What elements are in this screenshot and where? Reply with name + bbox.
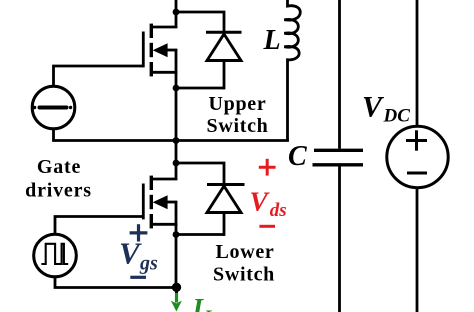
wire rail node B down to midpoint	[175, 88, 178, 164]
drain lead	[150, 26, 177, 29]
wire dot2 to lower diode cathode	[176, 163, 224, 186]
channel segment body	[150, 43, 153, 57]
label Vgs minus blue	[130, 276, 146, 279]
svg-text:V: V	[250, 186, 271, 217]
svg-text:I: I	[192, 293, 205, 312]
channel segment source	[150, 62, 153, 76]
voltage source VG2 lower gate driver pulse source	[34, 234, 77, 277]
triangle	[207, 34, 241, 61]
diode D2 lower body diode	[207, 185, 245, 236]
capacitor C	[313, 150, 364, 165]
wire VG2 plus to lower gate	[55, 217, 143, 235]
label Vds minus red	[259, 225, 275, 228]
source lead	[150, 71, 177, 74]
body arrow line	[166, 201, 177, 204]
node A top junction dot	[173, 9, 180, 16]
current arrow IL green	[171, 288, 182, 312]
wire node A to upper diode cathode	[176, 12, 224, 33]
wire top rail into drain of upper switch	[175, 0, 178, 28]
node dot2 lower drain junction	[173, 160, 180, 167]
wire mid node to inductor	[176, 139, 289, 142]
channel segment source	[150, 214, 153, 228]
svg-text:C: C	[288, 141, 307, 172]
transistor Q1 upper switch MOSFET	[143, 24, 177, 88]
svg-text:Switch: Switch	[207, 115, 269, 137]
svg-text:Switch: Switch	[213, 264, 275, 286]
wire capacitor top lead	[338, 0, 341, 149]
body arrow head	[153, 195, 168, 209]
svg-text:ds: ds	[270, 200, 287, 221]
svg-text:V: V	[362, 90, 385, 123]
voltage source VDC	[387, 126, 448, 187]
svg-text:L: L	[203, 307, 216, 312]
node mid junction dot	[173, 137, 180, 144]
node B upper source junction dot	[173, 85, 180, 92]
svg-text:Gate: Gate	[37, 156, 81, 178]
node D bottom junction dot	[172, 283, 181, 292]
source-drain vertical	[175, 202, 178, 235]
drain lead	[150, 178, 177, 181]
cathode bar	[206, 31, 242, 34]
cathode bar	[207, 183, 245, 186]
wire VG1 minus to mid node	[54, 129, 177, 141]
wire VG2 minus to bottom node	[55, 277, 176, 288]
channel segment drain	[150, 24, 153, 38]
voltage source VG1 upper gate driver	[32, 86, 75, 129]
svg-text:Upper: Upper	[209, 93, 267, 115]
anode lead	[223, 213, 226, 236]
wire VDC top lead	[416, 0, 419, 126]
wire rail node C down to bottom node	[175, 235, 178, 288]
svg-text:drivers: drivers	[25, 180, 92, 202]
wire rail dot2 down through lower switch	[175, 163, 178, 180]
label Vds plus red	[259, 159, 276, 176]
body arrow line	[166, 49, 177, 52]
svg-text:L: L	[263, 25, 281, 56]
gate plate	[142, 184, 145, 220]
inductor L	[284, 0, 300, 141]
source-drain vertical	[175, 50, 178, 88]
node C lower source junction dot	[173, 231, 180, 238]
svg-text:gs: gs	[139, 253, 158, 275]
triangle	[207, 186, 241, 213]
svg-text:DC: DC	[383, 106, 411, 127]
diode D1 upper body diode	[206, 32, 242, 89]
wire node B to upper diode anode	[176, 87, 224, 90]
channel segment body	[150, 195, 153, 209]
wire capacitor bottom lead	[338, 167, 341, 312]
transistor Q2 lower switch MOSFET	[143, 176, 177, 235]
svg-text:Lower: Lower	[215, 241, 274, 263]
source lead	[150, 223, 177, 226]
wire VDC bottom lead	[416, 188, 419, 312]
anode lead	[223, 61, 226, 90]
body arrow head	[153, 43, 168, 57]
gate plate	[142, 32, 145, 68]
wire VG1 plus to upper gate	[54, 66, 144, 86]
channel segment drain	[150, 176, 153, 190]
svg-text:V: V	[119, 236, 142, 271]
label Vgs plus blue	[130, 224, 148, 241]
wire node C to lower diode anode	[176, 233, 224, 236]
